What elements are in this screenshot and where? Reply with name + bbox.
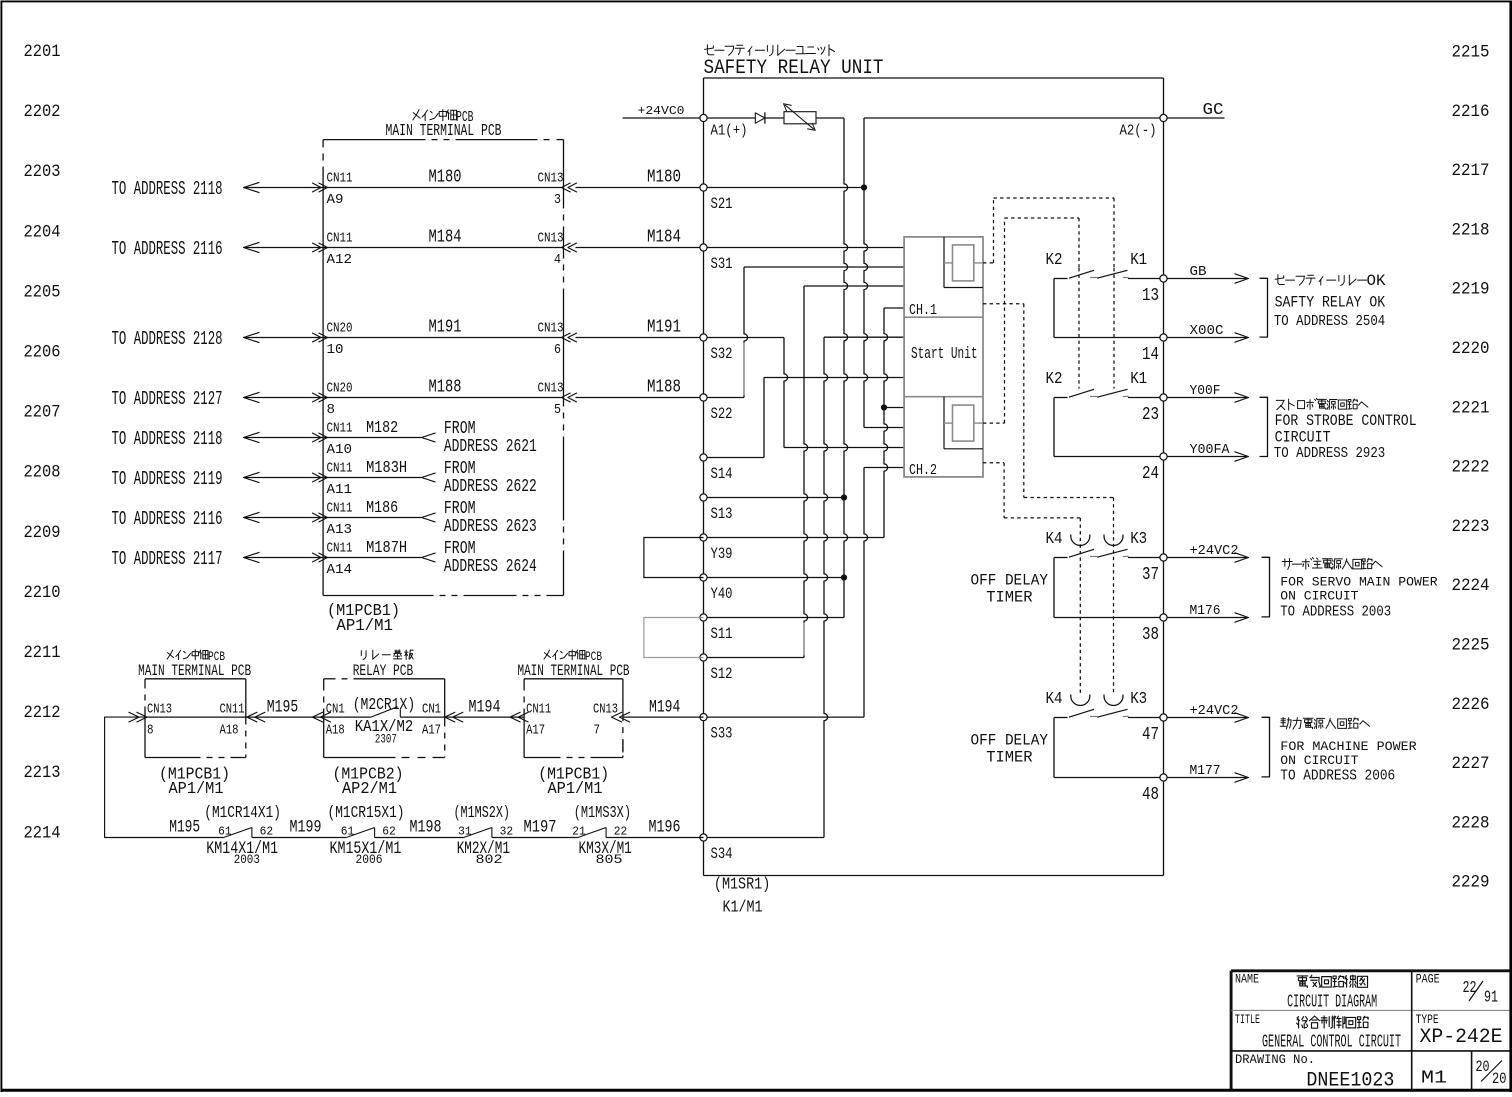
svg-text:M180: M180 [647, 167, 681, 188]
svg-text:ON CIRCUIT: ON CIRCUIT [1280, 753, 1358, 768]
svg-text:M176: M176 [1190, 604, 1221, 619]
svg-text:32: 32 [500, 824, 513, 838]
svg-text:CN11: CN11 [327, 232, 353, 247]
svg-text:M188: M188 [647, 377, 681, 398]
output Y00FA [1167, 456, 1246, 458]
PCB box M1PCB1 (right) [524, 678, 623, 680]
svg-text:21: 21 [572, 824, 586, 838]
svg-text:2219: 2219 [1452, 280, 1490, 300]
jumper Y39-Y40 [644, 538, 704, 578]
PCB box M1PCB2 (relay pcb) [324, 678, 336, 680]
svg-text:K1: K1 [1130, 370, 1147, 389]
svg-text:SAFETY RELAY UNIT: SAFETY RELAY UNIT [704, 57, 884, 80]
svg-text:XP-242E: XP-242E [1420, 1026, 1503, 1049]
svg-text:37: 37 [1142, 565, 1159, 585]
svg-text:AP1/M1: AP1/M1 [169, 779, 224, 798]
svg-text:S21: S21 [711, 195, 733, 213]
svg-text:3: 3 [554, 193, 561, 208]
svg-text:TO ADDRESS 2923: TO ADDRESS 2923 [1274, 446, 1385, 462]
wire S34 up (V5) [824, 337, 828, 837]
svg-text:TITLE: TITLE [1235, 1012, 1260, 1027]
svg-text:FOR MACHINE POWER: FOR MACHINE POWER [1280, 739, 1416, 754]
svg-text:(M1MS2X): (M1MS2X) [454, 804, 511, 823]
link CH.1 to K3 contacts [983, 303, 1024, 305]
svg-text:M184: M184 [429, 226, 462, 247]
svg-text:GENERAL CONTROL CIRCUIT: GENERAL CONTROL CIRCUIT [1262, 1032, 1401, 1052]
label main terminal PCB [413, 110, 419, 120]
svg-text:2006: 2006 [356, 852, 383, 867]
wire S22 row [707, 397, 744, 399]
output M176 [1167, 617, 1246, 619]
svg-text:TO ADDRESS 2117: TO ADDRESS 2117 [112, 548, 223, 570]
svg-text:ADDRESS 2621: ADDRESS 2621 [444, 436, 537, 457]
svg-text:A17: A17 [422, 724, 441, 739]
gray segment V1 [743, 343, 745, 396]
net GC [1167, 117, 1224, 119]
svg-text:2229: 2229 [1452, 873, 1490, 893]
svg-text:MAIN TERMINAL PCB: MAIN TERMINAL PCB [386, 121, 502, 140]
entry wires into start unit [744, 266, 904, 268]
svg-text:M197: M197 [524, 818, 557, 838]
svg-text:47: 47 [1142, 725, 1159, 745]
svg-text:6: 6 [554, 343, 561, 358]
svg-text:AP1/M1: AP1/M1 [548, 779, 603, 798]
PCB box M1PCB1 (left) [145, 678, 246, 680]
svg-text:ADDRESS 2623: ADDRESS 2623 [444, 516, 537, 537]
output Y00F [1167, 397, 1246, 399]
svg-text:K4: K4 [1046, 690, 1063, 709]
svg-text:TO ADDRESS 2127: TO ADDRESS 2127 [112, 388, 223, 410]
terminals S21..S34 [700, 184, 707, 191]
svg-text:Start Unit: Start Unit [911, 344, 978, 363]
svg-text:A9: A9 [327, 193, 344, 208]
wire S14 up (V2) [763, 378, 765, 458]
svg-text:A14: A14 [327, 563, 353, 578]
svg-text:(M1MS3X): (M1MS3X) [574, 804, 631, 823]
svg-text:2205: 2205 [24, 282, 61, 302]
svg-text:TO ADDRESS 2118: TO ADDRESS 2118 [112, 178, 223, 200]
wire S22 up (V1) [744, 267, 748, 398]
terminal A2(-) [864, 117, 1164, 119]
svg-text:ADDRESS 2622: ADDRESS 2622 [444, 476, 537, 497]
main terminal PCB (M1PCB1) box [323, 139, 425, 141]
svg-text:2204: 2204 [24, 222, 61, 242]
svg-text:K4: K4 [1046, 530, 1063, 549]
output GB [1167, 278, 1246, 280]
svg-text:22: 22 [1463, 979, 1477, 998]
svg-text:Y40: Y40 [711, 585, 733, 603]
bottom relay contact row [252, 837, 346, 839]
contacts K4/K3 row 717.0 [1054, 717, 1068, 719]
output X00C [1167, 337, 1246, 339]
svg-text:CN20: CN20 [327, 382, 353, 397]
svg-text:FOR SERVO MAIN POWER: FOR SERVO MAIN POWER [1280, 575, 1437, 590]
wire S32 down (V3) [784, 338, 788, 448]
svg-text:2211: 2211 [24, 643, 61, 663]
svg-text:20: 20 [1476, 1058, 1490, 1076]
svg-text:A1(+): A1(+) [711, 124, 748, 140]
svg-text:S22: S22 [711, 405, 733, 423]
svg-text:SAFTY RELAY OK: SAFTY RELAY OK [1275, 293, 1386, 311]
svg-text:GB: GB [1190, 265, 1207, 280]
svg-text:CN1: CN1 [326, 703, 345, 718]
svg-text:OK: OK [1367, 272, 1387, 290]
jumper S11-S12 (gray) [644, 618, 704, 658]
svg-text:TYPE: TYPE [1416, 1012, 1439, 1027]
safety relay unit box [704, 77, 1164, 79]
wire A2 down (V7 upper) [864, 118, 868, 428]
svg-text:2202: 2202 [24, 102, 61, 122]
svg-text:CIRCUIT: CIRCUIT [1275, 428, 1331, 446]
svg-text:2216: 2216 [1452, 102, 1490, 122]
svg-text:A2(-): A2(-) [1120, 124, 1157, 140]
junction dots [861, 184, 867, 190]
svg-text:+24VC2: +24VC2 [1190, 704, 1239, 719]
note machine power [1262, 717, 1270, 777]
terminal A1(+) [700, 114, 707, 121]
svg-text:4: 4 [554, 253, 561, 268]
gray segment V4 [803, 623, 805, 656]
svg-text:CN11: CN11 [327, 542, 353, 557]
svg-text:(M1CR15X1): (M1CR15X1) [328, 804, 405, 823]
svg-text:23: 23 [1142, 405, 1159, 425]
svg-text:CN11: CN11 [327, 172, 353, 187]
wire S32 row [707, 337, 784, 339]
contacts K4/K3 row 557.0 [1054, 557, 1068, 559]
svg-text:A18: A18 [326, 724, 345, 739]
svg-text:TO ADDRESS 2116: TO ADDRESS 2116 [112, 238, 223, 260]
svg-text:M196: M196 [649, 818, 681, 838]
svg-text:2227: 2227 [1452, 754, 1490, 774]
svg-text:Y00FA: Y00FA [1190, 443, 1231, 458]
wire +24V down (V6) [844, 118, 848, 618]
svg-text:K1/M1: K1/M1 [723, 899, 763, 918]
svg-text:CH.1: CH.1 [909, 303, 937, 319]
svg-text:Y00F: Y00F [1190, 384, 1221, 399]
svg-text:802: 802 [476, 852, 503, 867]
svg-text:TO ADDRESS 2116: TO ADDRESS 2116 [112, 508, 223, 530]
svg-text:MAIN TERMINAL PCB: MAIN TERMINAL PCB [518, 662, 630, 680]
svg-text:8: 8 [147, 724, 154, 739]
wire S21 row [707, 187, 861, 189]
svg-text:A11: A11 [327, 483, 353, 498]
note safety relay ok [1260, 278, 1268, 337]
svg-text:5: 5 [554, 403, 561, 418]
svg-text:2207: 2207 [24, 403, 61, 423]
svg-text:805: 805 [596, 852, 623, 867]
svg-text:K2: K2 [1046, 251, 1063, 270]
output +24VC2 [1167, 717, 1246, 719]
svg-text:S32: S32 [711, 345, 733, 363]
svg-text:S34: S34 [711, 845, 733, 863]
svg-text:DRAWING No.: DRAWING No. [1235, 1052, 1315, 1067]
diode [755, 113, 765, 123]
svg-text:S33: S33 [711, 725, 733, 743]
svg-text:M180: M180 [429, 166, 462, 187]
link K2 pair [1078, 268, 1080, 389]
contacts K2/K1 row 278.0 [1054, 278, 1068, 280]
svg-text:62: 62 [382, 824, 396, 838]
svg-text:13: 13 [1142, 286, 1159, 306]
svg-text:CN11: CN11 [327, 462, 353, 477]
svg-text:CN13: CN13 [538, 382, 564, 397]
svg-text:2210: 2210 [24, 583, 61, 603]
svg-text:CN13: CN13 [538, 232, 564, 247]
link K1 pair [1113, 268, 1115, 389]
svg-text:22: 22 [614, 824, 628, 838]
svg-text:M1: M1 [1421, 1069, 1447, 1089]
svg-text:A17: A17 [526, 724, 545, 739]
svg-text:2222: 2222 [1452, 458, 1490, 478]
wire S11 row [707, 617, 844, 619]
svg-text:M195: M195 [267, 697, 298, 717]
svg-text:S14: S14 [711, 465, 733, 483]
svg-text:CN20: CN20 [327, 322, 353, 337]
svg-text:2003: 2003 [234, 852, 260, 867]
wire S33 row [707, 716, 864, 718]
svg-text:61: 61 [218, 824, 232, 838]
svg-text:2226: 2226 [1452, 695, 1490, 715]
svg-text:CN11: CN11 [220, 703, 245, 718]
svg-text:PAGE: PAGE [1416, 971, 1440, 986]
svg-text:ON CIRCUIT: ON CIRCUIT [1280, 589, 1358, 604]
svg-text:2218: 2218 [1452, 220, 1490, 240]
svg-text:TO ADDRESS 2504: TO ADDRESS 2504 [1274, 314, 1385, 330]
svg-text:AP1/M1: AP1/M1 [336, 617, 393, 636]
svg-text:M188: M188 [429, 376, 462, 397]
svg-text:A10: A10 [327, 443, 353, 458]
output M177 [1167, 777, 1246, 779]
wire row M195/M194 [105, 717, 224, 837]
svg-text:OFF DELAY: OFF DELAY [971, 732, 1049, 750]
svg-text:2307: 2307 [375, 731, 397, 746]
svg-text:+24VC2: +24VC2 [1190, 544, 1239, 559]
svg-text:A18: A18 [220, 724, 239, 739]
svg-text:M182: M182 [366, 419, 398, 438]
svg-text:A13: A13 [327, 523, 353, 538]
svg-text:A12: A12 [327, 253, 353, 268]
svg-text:48: 48 [1142, 785, 1159, 805]
svg-text:S11: S11 [711, 625, 733, 643]
coil CH.1 [943, 237, 945, 288]
wire S14 row [707, 457, 764, 459]
coil CH.2 [943, 397, 945, 449]
wire Y39 row [707, 537, 884, 539]
svg-text:14: 14 [1142, 345, 1159, 365]
svg-text:TIMER: TIMER [986, 588, 1033, 606]
svg-text:RELAY PCB: RELAY PCB [353, 662, 414, 680]
svg-text:2208: 2208 [24, 463, 61, 483]
svg-text:2223: 2223 [1452, 517, 1490, 537]
note strobe control [1260, 397, 1268, 456]
svg-text:S13: S13 [711, 505, 733, 523]
wire V8 [884, 308, 888, 538]
svg-text:+24VC0: +24VC0 [638, 104, 685, 118]
svg-text:2214: 2214 [24, 823, 61, 843]
svg-text:TIMER: TIMER [986, 748, 1033, 766]
svg-text:M187H: M187H [366, 539, 407, 558]
svg-text:S31: S31 [711, 255, 733, 273]
svg-text:M177: M177 [1190, 764, 1221, 779]
svg-text:8: 8 [327, 403, 336, 418]
svg-text:2201: 2201 [24, 42, 61, 62]
svg-text:M186: M186 [366, 499, 398, 518]
svg-text:CIRCUIT DIAGRAM: CIRCUIT DIAGRAM [1287, 993, 1377, 1013]
svg-text:M195: M195 [169, 818, 200, 838]
svg-text:2220: 2220 [1452, 339, 1490, 359]
svg-text:2206: 2206 [24, 343, 61, 363]
svg-text:CN13: CN13 [538, 322, 564, 337]
svg-text:2203: 2203 [24, 162, 61, 182]
svg-text:2217: 2217 [1452, 161, 1490, 181]
svg-text:(M1SR1): (M1SR1) [714, 876, 770, 895]
svg-text:CN1: CN1 [422, 703, 441, 718]
svg-text:M184: M184 [647, 227, 681, 248]
svg-text:2215: 2215 [1452, 43, 1490, 63]
svg-text:2221: 2221 [1452, 398, 1490, 418]
svg-text:ADDRESS 2624: ADDRESS 2624 [444, 556, 537, 577]
svg-text:31: 31 [458, 824, 472, 838]
title block [1231, 969, 1509, 972]
svg-text:CN11: CN11 [526, 703, 551, 718]
wire S33 up (V7 lower) [864, 468, 868, 718]
start unit box [904, 237, 983, 477]
svg-text:K1: K1 [1130, 251, 1147, 270]
svg-text:OFF DELAY: OFF DELAY [971, 572, 1049, 590]
svg-text:K3: K3 [1130, 690, 1147, 709]
svg-text:CN13: CN13 [538, 172, 564, 187]
svg-text:NAME: NAME [1235, 971, 1259, 986]
svg-text:M198: M198 [410, 818, 442, 838]
svg-text:2209: 2209 [24, 523, 61, 543]
svg-text:24: 24 [1142, 464, 1159, 484]
link CH.2 coil to K2 contacts [983, 422, 1005, 424]
svg-text:CN11: CN11 [327, 502, 353, 517]
svg-text:2224: 2224 [1452, 576, 1490, 596]
svg-text:2213: 2213 [24, 763, 61, 783]
svg-text:M194: M194 [649, 697, 680, 717]
svg-text:38: 38 [1142, 625, 1159, 645]
svg-text:M194: M194 [469, 697, 501, 717]
svg-text:7: 7 [594, 724, 601, 739]
svg-text:S12: S12 [711, 665, 733, 683]
link CH.1 coil to K1 contacts [983, 262, 994, 264]
svg-text:CN11: CN11 [327, 422, 353, 437]
surge absorber [784, 112, 816, 124]
svg-text:(M1CR14X1): (M1CR14X1) [204, 804, 281, 823]
note servo main power [1262, 557, 1270, 617]
svg-text:10: 10 [327, 343, 344, 358]
svg-text:62: 62 [260, 824, 274, 838]
svg-text:AP2/M1: AP2/M1 [342, 779, 397, 798]
output +24VC2 [1167, 557, 1246, 559]
svg-text:2212: 2212 [24, 703, 61, 723]
svg-text:MAIN TERMINAL PCB: MAIN TERMINAL PCB [138, 662, 251, 680]
svg-text:Y39: Y39 [711, 545, 733, 563]
svg-text:CN13: CN13 [147, 703, 172, 718]
wire S34 row [707, 837, 824, 839]
wire S31 row into unit [707, 247, 904, 249]
svg-text:TO ADDRESS 2119: TO ADDRESS 2119 [112, 468, 223, 490]
wire S12 row [707, 657, 804, 659]
svg-text:91: 91 [1484, 989, 1498, 1008]
svg-text:2225: 2225 [1452, 636, 1490, 656]
svg-text:M183H: M183H [366, 459, 407, 478]
svg-text:TO ADDRESS 2118: TO ADDRESS 2118 [112, 428, 223, 450]
svg-text:CH.2: CH.2 [909, 463, 937, 479]
svg-text:K3: K3 [1130, 530, 1147, 549]
wire S13 row [707, 497, 844, 499]
svg-text:K2: K2 [1046, 370, 1063, 389]
svg-text:TO ADDRESS 2006: TO ADDRESS 2006 [1280, 769, 1395, 785]
svg-text:FOR STROBE CONTROL: FOR STROBE CONTROL [1275, 412, 1417, 430]
svg-text:M191: M191 [429, 316, 462, 337]
svg-text:61: 61 [341, 824, 355, 838]
svg-text:TO ADDRESS 2003: TO ADDRESS 2003 [1280, 604, 1391, 620]
svg-text:GC: GC [1203, 101, 1224, 120]
svg-text:20: 20 [1492, 1070, 1507, 1088]
svg-text:DNEE1023: DNEE1023 [1306, 1070, 1394, 1092]
svg-text:M191: M191 [647, 317, 681, 338]
svg-text:M199: M199 [290, 818, 322, 838]
wire Y40 row [707, 577, 844, 579]
contacts K2/K1 row 397.0 [1054, 397, 1068, 399]
svg-text:TO ADDRESS 2128: TO ADDRESS 2128 [112, 328, 223, 350]
title safety relay unit [705, 48, 714, 49]
wire S12 up (V4) [804, 286, 808, 658]
svg-text:X00C: X00C [1190, 324, 1224, 339]
link CH.2 to K4 contacts [983, 462, 1004, 464]
svg-text:2228: 2228 [1452, 813, 1490, 833]
